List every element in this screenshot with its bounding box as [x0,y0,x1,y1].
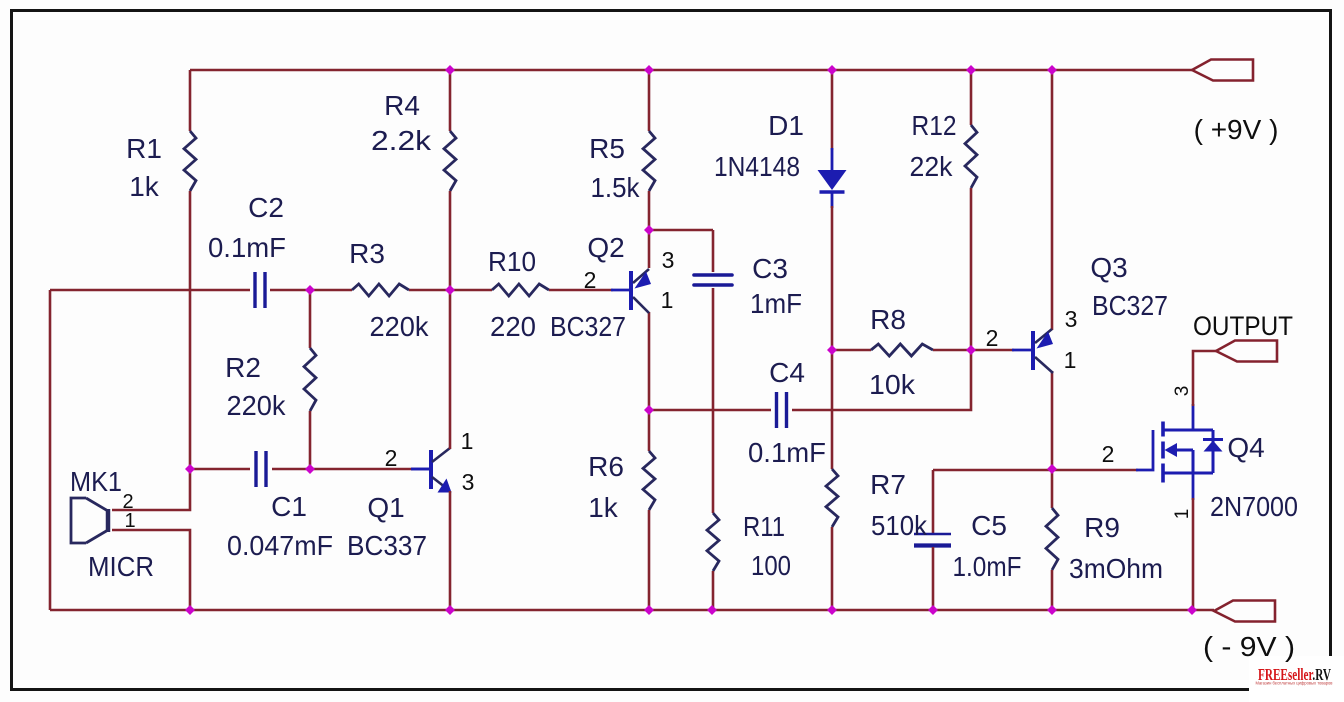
wire C5 top lead [932,470,935,533]
resistor R5 [643,131,655,191]
wire R2 top lead [309,290,312,348]
svg-text:C5: C5 [971,510,1007,541]
wire R12 bottom to R8 node [970,188,973,350]
junction node R1/C1/MK1 [185,464,195,474]
wire top +9V rail [190,69,1192,72]
diode D1 [818,170,847,190]
wire C5 corner to Q3 collector node [933,469,1052,472]
capacitor C5 [914,533,951,536]
wire MK1 pin2 lead [112,469,190,510]
svg-text:MICR: MICR [88,551,154,582]
svg-text:0.1mF: 0.1mF [748,437,826,468]
FREEseller.RV watermark box [1249,656,1344,702]
microphone MK1 [71,498,108,543]
wire Q2 base stub blue [611,289,631,292]
svg-text:Q1: Q1 [367,492,404,523]
junction node R12/rail [966,65,976,75]
svg-text:( - 9V ): ( - 9V ) [1203,631,1295,662]
wire C2 right to R2 node [270,289,352,292]
svg-text:3: 3 [462,469,475,495]
svg-text:OUTPUT: OUTPUT [1193,311,1293,341]
wire R9 top lead [1051,470,1054,508]
wire Q3 collector lead down [1051,371,1054,470]
wire C4 left lead [649,409,771,412]
svg-text:22k: 22k [910,151,954,182]
svg-text:2: 2 [986,325,999,351]
wire Q1 emitter lead [449,491,452,610]
svg-text:R12: R12 [912,110,957,141]
wire MK1 pin1 lead [112,530,190,610]
wire D1 anode lead [831,70,834,150]
wire Q3 base stub blue [1012,349,1033,352]
wire Q1 collector lead [449,290,452,449]
resistor R9 [1046,508,1058,570]
junction node Q3c/R9/gate [1047,464,1057,474]
svg-text:R1: R1 [126,133,162,164]
svg-text:D1: D1 [768,110,804,141]
connector +9V [1192,60,1253,81]
wire Q2 emitter lead [648,231,651,268]
junction node R6/rail [644,605,654,615]
svg-text:BC337: BC337 [347,530,427,561]
junction node MK1/rail [185,605,195,615]
svg-text:R11: R11 [743,511,785,542]
wire D1 cathode stub blue [831,192,834,208]
wire Q3 node to Q4 gate [1052,469,1138,472]
connector -9V [1214,601,1275,622]
capacitor C2 [255,272,265,308]
resistor R4 [444,131,456,191]
wire C5 bottom lead [932,547,935,610]
resistor R11 [707,513,719,571]
wire R6 bottom lead [648,510,651,610]
connector OUTPUT [1216,341,1277,362]
wire Q2 emitter node to C3 corner [649,229,713,232]
svg-text:1: 1 [124,510,135,532]
capacitor C3 [694,275,732,285]
junction node Q2c/C4/R6 [644,405,654,415]
junction node R3/R4/R10 [445,285,455,295]
wire Q4 drain lead to OUTPUT [1193,351,1216,406]
svg-text:R9: R9 [1084,512,1120,543]
wire input row y=290 [50,289,250,292]
wire R8 node to Q3 base [971,349,1014,352]
svg-text:0.047mF: 0.047mF [227,530,333,561]
wire R5 bottom to Q2 emitter node [648,191,651,231]
svg-text:C4: C4 [769,357,805,388]
wire D1 cathode to R8 node [831,206,834,350]
junction node D1/R8/R7 [827,345,837,355]
wire D1 anode stub blue [831,148,834,171]
junction node C1/R2/Q1b [305,464,315,474]
wire R5 top lead [648,70,651,131]
junction node R8/R12/Q3b [966,345,976,355]
svg-text:2.2k: 2.2k [371,125,432,156]
junction node D1/rail [827,65,837,75]
svg-text:3: 3 [1172,386,1193,397]
transistor Q1 [411,448,452,493]
svg-text:1: 1 [1172,509,1193,520]
resistor R1 [184,131,196,191]
wire C3 top lead [712,230,715,272]
wire R1 top lead [189,70,192,131]
resistor R3 [352,284,409,296]
svg-text:Q4: Q4 [1227,432,1264,463]
svg-text:R10: R10 [488,246,536,277]
wire R9 bottom lead [1051,570,1054,610]
junction node R4/rail [445,65,455,75]
svg-text:( +9V ): ( +9V ) [1194,114,1279,145]
junction node R7/rail [827,605,837,615]
resistor R8 [871,344,933,356]
svg-text:1.5k: 1.5k [591,172,641,203]
svg-text:BC327: BC327 [550,311,626,342]
svg-text:R7: R7 [870,469,906,500]
svg-text:3: 3 [662,247,675,273]
wire C1 left lead [190,468,250,471]
wire C3 bottom lead to R11 [712,288,715,513]
transistor Q3 [1033,329,1053,373]
wire R2 bottom lead [309,411,312,469]
wire Q3 emitter lead up to rail [1051,70,1054,330]
capacitor C1 [256,451,266,487]
wire node to R10 [452,289,492,292]
svg-text:10k: 10k [869,369,916,400]
svg-text:R4: R4 [384,90,420,121]
svg-text:220k: 220k [227,390,287,421]
svg-text:2: 2 [1102,441,1115,467]
svg-text:R6: R6 [588,451,624,482]
transistor Q2 [631,269,651,313]
svg-text:220k: 220k [370,311,430,342]
svg-text:Магазин бесплатных цифровых то: Магазин бесплатных цифровых товаров [1256,681,1333,686]
svg-text:Q2: Q2 [587,232,624,263]
wire bottom -9V rail [50,609,1214,612]
svg-text:C1: C1 [271,491,307,522]
svg-text:1: 1 [661,287,674,313]
svg-text:C3: C3 [752,253,788,284]
svg-text:0.1mF: 0.1mF [208,232,286,263]
wire R7 bottom lead [831,527,834,610]
junction node C5/rail [928,605,938,615]
svg-text:2N7000: 2N7000 [1210,491,1298,522]
svg-text:Q3: Q3 [1090,252,1127,283]
svg-text:1k: 1k [588,492,619,523]
svg-text:510k: 510k [871,510,928,541]
svg-text:3: 3 [1065,306,1078,332]
resistor R2 [304,348,316,411]
wire R10 to Q2 base [549,289,613,292]
wire Q4 gate lead blue [1136,430,1153,470]
svg-text:1N4148: 1N4148 [714,151,800,182]
wire R12 top lead [970,70,973,125]
wire Q4 source lead down [1192,498,1195,610]
svg-text:3mOhm: 3mOhm [1069,553,1163,584]
wire R4 bottom to signal node [449,191,452,290]
svg-text:R2: R2 [225,352,261,383]
capacitor C4 [777,392,787,428]
wire C4 right to R8 corner [792,350,971,410]
wire R8 left lead [832,349,871,352]
svg-text:2: 2 [584,267,597,293]
junction node R5/rail [644,65,654,75]
junction node C2/R2 [305,285,315,295]
wire R1 bottom lead to C1 node [189,191,192,469]
wire R3 to R10 node [409,289,452,292]
resistor R6 [643,451,655,510]
wire Q2 collector lead [648,312,651,410]
wire R6 top lead [648,410,651,451]
junction node Q4s/rail [1187,605,1197,615]
svg-text:1: 1 [461,428,474,454]
junction node Q3/rail [1047,65,1057,75]
junction node R9/rail [1047,605,1057,615]
svg-text:1k: 1k [129,171,160,202]
wire left input vertical [49,290,52,610]
svg-text:BC327: BC327 [1092,290,1168,321]
wire R11 bottom lead [712,571,715,610]
resistor R12 [965,125,977,188]
resistor R10 [492,284,549,296]
svg-text:220: 220 [490,311,536,342]
svg-text:MK1: MK1 [70,466,122,497]
wire C1 right lead [272,468,310,471]
svg-text:R5: R5 [589,133,625,164]
wire C1 node to Q1 base [310,468,413,471]
wire Q1 base stub blue [411,468,431,471]
svg-text:C2: C2 [248,192,284,223]
wire R8 right lead [933,349,971,352]
junction node R5/Q2e/C3 [644,225,654,235]
junction node R11/rail [707,605,717,615]
svg-text:R3: R3 [349,238,385,269]
svg-text:2: 2 [385,445,398,471]
wire R7 top lead from R8 node [831,350,834,469]
svg-text:1mF: 1mF [750,288,802,319]
wire R4 top lead [449,70,452,131]
resistor R7 [826,469,838,527]
svg-text:R8: R8 [870,304,906,335]
svg-text:1: 1 [1064,347,1077,373]
svg-text:100: 100 [751,550,791,581]
svg-text:1.0mF: 1.0mF [953,551,1022,582]
junction node Q1e/rail [445,605,455,615]
transistor Q4 (MOSFET 2N7000) [1163,404,1223,500]
